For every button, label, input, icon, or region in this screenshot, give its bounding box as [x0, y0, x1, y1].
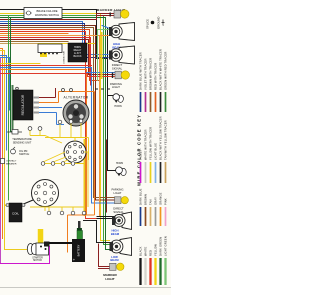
wire gauge yellow [30, 130, 62, 143]
firewall connector [38, 44, 66, 64]
wire magenta starter [0, 247, 50, 264]
svg-text:RED: RED [149, 250, 153, 256]
svg-text:BATTERY: BATTERY [77, 244, 81, 256]
legend group2 labels [139, 116, 168, 160]
alternator terminal 2 [69, 120, 73, 124]
svg-text:WHITE WITH TRACER: WHITE WITH TRACER [144, 129, 148, 160]
legend group1 bars [141, 92, 166, 112]
svg-text:BEAM: BEAM [110, 258, 119, 262]
wire spark plug row1 yellow [43, 152, 88, 207]
legend group1 labels [139, 49, 168, 90]
wire marker2 leads [99, 244, 110, 269]
svg-text:LIGHT GREEN: LIGHT GREEN [164, 236, 168, 256]
legend group4 labels [139, 236, 168, 256]
svg-text:LIGHT BLUE: LIGHT BLUE [154, 143, 158, 160]
brake failure warning switch [24, 8, 62, 19]
svg-text:LIGHT: LIGHT [114, 191, 122, 195]
horn bottom [116, 162, 127, 176]
wire yellow over relay [38, 43, 95, 45]
svg-text:ALTERNATOR: ALTERNATOR [64, 96, 89, 100]
wire red-orange drop [0, 30, 99, 81]
wire yellow mid [0, 63, 40, 65]
svg-text:CONTACT: CONTACT [6, 160, 17, 163]
wire dark green main [0, 18, 110, 250]
direct signal lamp top [109, 46, 135, 71]
svg-text:WARNING SWITCH: WARNING SWITCH [35, 13, 59, 17]
temperature sending unit [7, 130, 32, 145]
svg-text:VIOLET WITH TRACER: VIOLET WITH TRACER [144, 58, 148, 90]
wire red mid [0, 65, 92, 67]
svg-text:BLOCK: BLOCK [73, 55, 82, 58]
distributor cap [64, 141, 86, 163]
spark plug row1 [41, 162, 75, 166]
wire regulator dark red [39, 88, 56, 98]
svg-text:BROWN: BROWN [144, 194, 148, 205]
svg-text:TEMPERATURE: TEMPERATURE [12, 137, 32, 141]
svg-text:YELLOW: YELLOW [154, 244, 158, 256]
svg-text:CONNECTOR: CONNECTOR [64, 51, 66, 64]
wire orange left drop [0, 49, 3, 239]
svg-text:BLACK WITH WHITE TRACER: BLACK WITH WHITE TRACER [159, 49, 163, 90]
legend group3 labels [139, 188, 168, 205]
wire blue parking1 lead [87, 72, 116, 74]
ground symbol [157, 17, 165, 29]
wire high beam1 stub blue slant [102, 26, 110, 29]
splice symbol [146, 19, 155, 29]
horn top [113, 94, 124, 108]
voltage regulator [13, 87, 39, 120]
svg-text:GRAY: GRAY [154, 197, 158, 205]
battery [72, 221, 85, 262]
legend group2 bars [141, 162, 166, 183]
wire brown2 top [0, 41, 68, 43]
svg-text:SIGNAL: SIGNAL [113, 210, 124, 214]
wire maroon parking2 [0, 26, 115, 201]
svg-text:DARK BLUE: DARK BLUE [139, 188, 143, 205]
svg-text:SPLICE: SPLICE [146, 19, 150, 29]
direct signal lamp bottom [112, 206, 132, 229]
wire distributor to coil [24, 200, 34, 204]
wire orange top [0, 33, 68, 35]
legend group3 bars [141, 207, 166, 226]
marker light top [97, 8, 129, 18]
wire navy direct1 [0, 24, 108, 58]
svg-text:GROUND: GROUND [157, 17, 161, 29]
wire coil yellow stub [5, 204, 6, 206]
wire direct2 black leads [97, 217, 113, 219]
svg-text:MARKER LIGHT: MARKER LIGHT [97, 8, 126, 12]
svg-text:HORN: HORN [114, 105, 122, 108]
wire violet left edge [0, 58, 2, 263]
wire yellow harness [45, 123, 89, 160]
high beam lamp bottom [110, 229, 132, 256]
svg-text:SENDING UNIT: SENDING UNIT [13, 141, 32, 145]
wire yellow top [0, 14, 110, 241]
wire green main [0, 16, 110, 245]
wire regulator blue [39, 108, 64, 125]
wire horn1 stub [108, 95, 113, 97]
svg-text:OIL PR.: OIL PR. [19, 149, 28, 153]
svg-text:BLACK: BLACK [139, 246, 143, 256]
svg-text:LIGHT: LIGHT [112, 85, 120, 89]
wire headlamp housing bottom [84, 221, 110, 243]
wire regulator orange frame [39, 92, 95, 253]
wire red2 top [0, 38, 91, 86]
svg-text:SWITCH: SWITCH [19, 152, 29, 156]
wire high beam1 stub tan [100, 35, 109, 37]
horn relay junction block [68, 43, 87, 62]
spark plug row2 [47, 211, 86, 215]
gauge terminal B [38, 127, 42, 131]
wire yellow distributor loop [84, 140, 86, 215]
low beam label bottom [110, 255, 119, 262]
svg-text:PARKING: PARKING [110, 82, 122, 86]
wire battery cable [50, 242, 73, 244]
svg-text:MOTOR: MOTOR [33, 260, 42, 262]
parking light top [110, 71, 129, 89]
svg-text:PINK: PINK [164, 198, 168, 205]
wire blue direct1 [0, 22, 108, 55]
wire spark plug row2 yellow [30, 207, 84, 211]
wire red main [0, 32, 97, 219]
svg-text:SIGNAL: SIGNAL [112, 67, 123, 71]
svg-text:HORN: HORN [116, 162, 124, 165]
wire orange mid drop [0, 70, 87, 216]
svg-text:COIL: COIL [12, 212, 19, 216]
starter motor [27, 229, 49, 262]
svg-text:STARTER: STARTER [32, 256, 43, 259]
alternator terminal 1 [58, 120, 62, 124]
svg-text:PARKING: PARKING [112, 188, 124, 192]
contact breaker label [1, 159, 18, 166]
wire sage ground strap [12, 86, 14, 132]
coil [6, 203, 25, 222]
wire dark red mid vertical [106, 140, 108, 212]
svg-text:WHITE: WHITE [144, 247, 148, 256]
wire orange2 top [0, 36, 100, 217]
wire blue left mid [0, 58, 10, 111]
svg-text:RED WITH TRACER: RED WITH TRACER [154, 63, 158, 90]
wire tan top [0, 43, 38, 45]
wire dark green left drop [11, 18, 13, 132]
high beam lamp top [109, 23, 135, 50]
wire blue mid long [0, 68, 115, 204]
wire horn2 stub [108, 170, 116, 172]
wire dark red top [0, 40, 115, 75]
wire yellow left drop [0, 51, 27, 250]
wire dark red marker1 [0, 14, 114, 20]
marker light bottom [103, 263, 124, 281]
wire yellow band [100, 33, 102, 78]
svg-text:ORANGE: ORANGE [159, 192, 163, 205]
svg-text:REGULATOR: REGULATOR [21, 94, 25, 115]
svg-text:TAN: TAN [149, 199, 153, 205]
svg-text:LIGHT: LIGHT [105, 277, 114, 281]
wire green left drop [8, 16, 10, 201]
svg-text:BLACK WITH YELLOW TRACER: BLACK WITH YELLOW TRACER [159, 116, 163, 160]
wire blue left drop [0, 56, 7, 151]
svg-text:BREAKER: BREAKER [6, 162, 17, 165]
svg-text:VIOLET: VIOLET [139, 149, 143, 160]
svg-text:YELLOW WITH TRACER: YELLOW WITH TRACER [149, 127, 153, 160]
alternator terminal 3 [79, 119, 83, 123]
page bottom rule [0, 287, 171, 289]
wire black brake switch feed [0, 10, 108, 171]
wire high beam1 stub ltgreen [98, 30, 110, 81]
svg-text:GREEN WITH RED TRACER: GREEN WITH RED TRACER [164, 52, 168, 91]
svg-text:DARK BLUE WITH TRACER: DARK BLUE WITH TRACER [139, 52, 143, 90]
legend group4 bars [141, 258, 166, 285]
svg-text:DARK GREEN: DARK GREEN [159, 237, 163, 256]
distributor [32, 180, 59, 207]
oil pressure switch [11, 147, 30, 156]
wire brown parking2 [0, 28, 115, 198]
svg-text:TAN WITH YELLOW TRACER: TAN WITH YELLOW TRACER [164, 120, 168, 160]
svg-text:BROWN WITH TRACER: BROWN WITH TRACER [149, 58, 153, 90]
parking light bottom [112, 188, 129, 204]
alternator [62, 89, 111, 127]
gauge terminal A [28, 127, 32, 131]
svg-text:BRAKE FAILURE: BRAKE FAILURE [36, 9, 57, 13]
svg-text:BEAM: BEAM [111, 232, 120, 236]
wire red lower mid [0, 74, 115, 77]
